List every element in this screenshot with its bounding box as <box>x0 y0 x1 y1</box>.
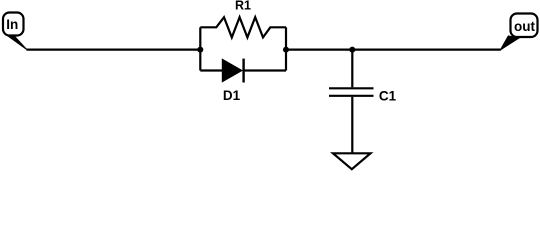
diode D1 <box>200 59 286 83</box>
capacitor C1 <box>329 50 374 153</box>
svg-text:out: out <box>514 19 535 34</box>
node: capacitor junction dot <box>349 47 355 53</box>
wire: right node to out <box>286 48 501 50</box>
wire: In to left node <box>27 48 201 50</box>
node: right junction dot <box>283 47 289 53</box>
wire: left vertical of parallel branch <box>199 27 201 70</box>
resistor R1 <box>200 17 286 37</box>
svg-text:D1: D1 <box>223 88 241 103</box>
svg-text:R1: R1 <box>235 0 251 13</box>
svg-text:C1: C1 <box>379 88 397 103</box>
svg-text:In: In <box>6 17 18 32</box>
terminal In tail <box>6 35 27 50</box>
node: left junction dot <box>197 47 203 53</box>
terminal In (balloon) <box>3 13 24 36</box>
terminal out (balloon) <box>511 14 538 38</box>
wire: right vertical of parallel branch <box>285 27 287 70</box>
terminal out tail <box>500 36 519 50</box>
ground <box>333 153 371 169</box>
